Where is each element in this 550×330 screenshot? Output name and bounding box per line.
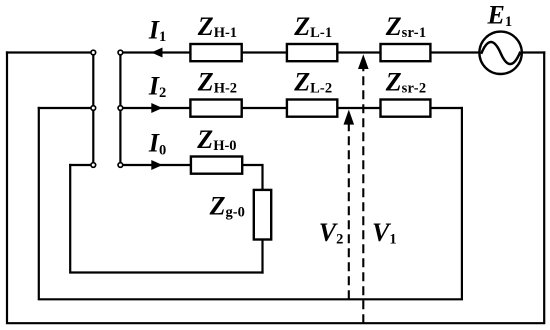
wire row2 from right bus to ZH-2: [123, 107, 191, 109]
resistor Zsr-2: [381, 100, 431, 117]
wire row2 left segment: [39, 107, 91, 109]
wire row3 from right bus to ZH-0: [123, 164, 191, 166]
wire row2 Zsr-2 to right vertical: [431, 107, 462, 109]
node right bus row2: [118, 106, 123, 111]
wire row1 ZH-1 to ZL-1: [242, 51, 288, 53]
current arrow I1 (pointing left): [151, 48, 162, 58]
resistor Zg-0 vertical: [254, 190, 271, 240]
dashed line V1: [362, 68, 364, 324]
wire row3 ZH-0 to Zg-0 top corner: [242, 165, 263, 190]
wire left bus vertical: [92, 53, 94, 166]
wire right bus vertical: [119, 53, 121, 166]
wire row1 ZL-1 to Zsr-1: [337, 51, 381, 53]
resistor ZL-1: [287, 44, 337, 61]
voltage arrowhead V1 (pointing up): [358, 54, 369, 69]
wire middle loop left/bottom/right: [39, 108, 462, 299]
dashed line V2: [348, 123, 350, 299]
wire row1 Zsr-1 to E1: [431, 51, 480, 53]
wire row2 ZL-2 to Zsr-2: [337, 107, 381, 109]
node left bus row1: [91, 50, 96, 55]
current arrow I0 (pointing right): [151, 160, 162, 170]
wire row2 ZH-2 to ZL-2: [242, 107, 288, 109]
wire row1 from right bus to ZH-1: [123, 51, 191, 53]
source E1 circle: [479, 32, 521, 74]
wire row3 left segment: [70, 164, 91, 166]
voltage arrowhead V2 (pointing up): [344, 110, 355, 125]
source E1 sine wave: [481, 42, 520, 64]
current arrow I2 (pointing right): [151, 103, 162, 113]
wire Zg-0 bottom to inner loop: [261, 240, 263, 273]
node right bus row3: [118, 163, 123, 168]
resistor Zsr-1: [381, 44, 431, 61]
resistor ZL-2: [287, 100, 337, 117]
node right bus row1: [118, 50, 123, 55]
wire inner loop left/bottom: [70, 165, 262, 273]
wire row1 E1 to right vertical: [522, 51, 545, 53]
resistor ZH-2: [190, 100, 241, 117]
wire row1 left segment: [7, 51, 91, 53]
node left bus row2: [91, 106, 96, 111]
node left bus row3: [91, 163, 96, 168]
resistor ZH-0: [191, 157, 242, 174]
resistor ZH-1: [190, 44, 241, 61]
